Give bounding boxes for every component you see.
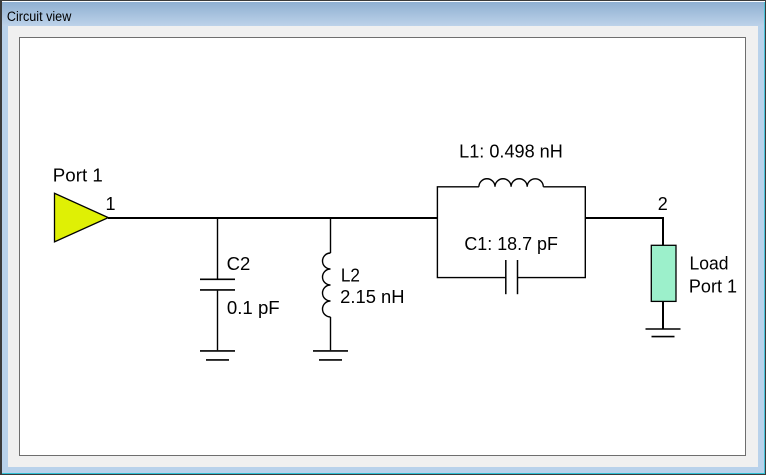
svg-text:C2: C2 (227, 254, 251, 274)
svg-text:2: 2 (658, 194, 668, 214)
svg-text:L2: L2 (341, 266, 360, 286)
svg-text:Load: Load (690, 253, 729, 273)
svg-text:C1: 18.7 pF: C1: 18.7 pF (464, 234, 558, 254)
svg-text:Circuit view: Circuit view (7, 9, 72, 24)
svg-text:L1: 0.498 nH: L1: 0.498 nH (459, 142, 563, 162)
svg-text:2.15 nH: 2.15 nH (340, 287, 404, 307)
svg-text:Port 1: Port 1 (53, 165, 103, 185)
svg-text:1: 1 (106, 194, 116, 214)
svg-text:0.1 pF: 0.1 pF (227, 298, 280, 318)
svg-text:Port 1: Port 1 (689, 276, 737, 296)
